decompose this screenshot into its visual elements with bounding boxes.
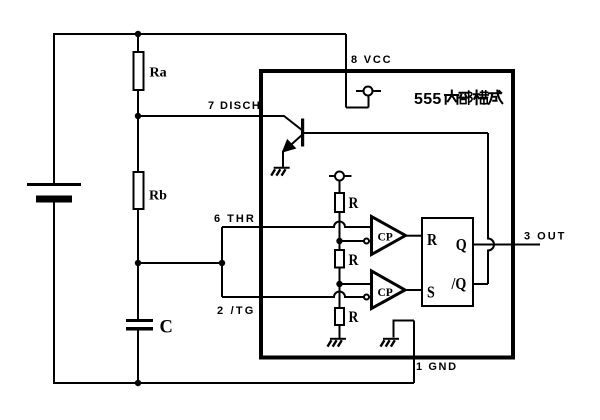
svg-text:2 /TG: 2 /TG bbox=[217, 305, 256, 317]
svg-text:3 OUT: 3 OUT bbox=[524, 231, 566, 243]
svg-text:/Q: /Q bbox=[451, 275, 467, 293]
svg-text:Rb: Rb bbox=[149, 189, 167, 204]
svg-text:C: C bbox=[160, 318, 173, 338]
svg-text:555: 555 bbox=[414, 91, 442, 108]
svg-text:1 GND: 1 GND bbox=[416, 361, 458, 373]
svg-text:Q: Q bbox=[456, 236, 467, 254]
svg-text:6 THR: 6 THR bbox=[214, 213, 256, 225]
svg-text:R: R bbox=[427, 231, 438, 249]
svg-text:7 DISCH: 7 DISCH bbox=[208, 100, 261, 112]
svg-text:CP: CP bbox=[378, 232, 393, 244]
svg-text:CP: CP bbox=[378, 287, 393, 299]
svg-text:8 VCC: 8 VCC bbox=[351, 54, 392, 66]
svg-text:R: R bbox=[349, 309, 359, 326]
svg-text:S: S bbox=[427, 284, 435, 302]
svg-text:R: R bbox=[349, 252, 359, 269]
svg-text:R: R bbox=[349, 195, 359, 212]
svg-text:Ra: Ra bbox=[150, 66, 167, 81]
